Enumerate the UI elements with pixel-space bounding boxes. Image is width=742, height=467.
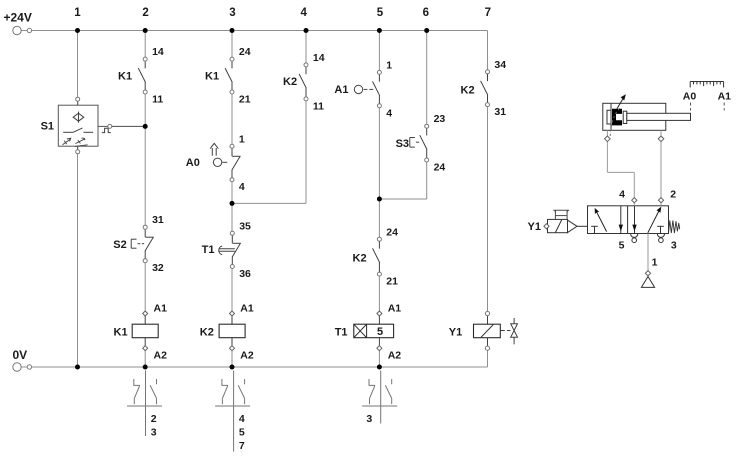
svg-text:4: 4 [239, 413, 245, 425]
svg-text:A2: A2 [388, 350, 402, 362]
contact K2 rung7 (34-31) [461, 59, 507, 118]
contact A0 limit switch (1-4) actuated [186, 133, 245, 193]
svg-text:K1: K1 [118, 71, 132, 83]
svg-text:5: 5 [377, 7, 384, 19]
svg-text:5: 5 [619, 240, 625, 252]
valve port 4 [619, 189, 637, 206]
wire col2 [144, 31, 146, 368]
junction dots top rail [75, 28, 429, 33]
svg-text:T1: T1 [202, 244, 215, 256]
svg-text:1: 1 [74, 7, 81, 19]
svg-text:Y1: Y1 [449, 326, 462, 338]
svg-text:4: 4 [386, 107, 392, 119]
contact cross-reference T1 [362, 371, 397, 425]
svg-text:24: 24 [434, 162, 446, 174]
relay coil K1 [114, 303, 168, 362]
svg-text:K2: K2 [353, 253, 367, 265]
node 6 [423, 7, 429, 19]
svg-text:A0: A0 [683, 91, 697, 103]
+24V rail [32, 31, 488, 70]
svg-text:0V: 0V [13, 348, 28, 362]
wire col4 [232, 31, 306, 204]
svg-text:21: 21 [239, 94, 251, 106]
valve 1V (5/2-way) body [588, 206, 669, 234]
svg-text:A2: A2 [154, 350, 168, 362]
svg-text:A1: A1 [334, 84, 348, 96]
terminal +24V [4, 10, 32, 34]
Y1 valve linkage symbol [500, 318, 517, 344]
svg-text:K2: K2 [283, 76, 297, 88]
svg-text:4: 4 [300, 7, 307, 19]
contact K2 rung5 (24-21) [353, 226, 399, 287]
svg-text:7: 7 [239, 440, 245, 452]
svg-text:K2: K2 [461, 85, 475, 97]
node 7 [485, 7, 491, 19]
position mark A1 [718, 91, 732, 111]
svg-text:5: 5 [377, 326, 383, 338]
svg-text:2: 2 [142, 7, 148, 19]
svg-text:Y1: Y1 [528, 221, 541, 233]
svg-text:14: 14 [313, 52, 325, 64]
svg-text:K1: K1 [205, 71, 219, 83]
svg-text:21: 21 [386, 276, 398, 288]
svg-text:T1: T1 [335, 326, 348, 338]
svg-text:A2: A2 [240, 350, 254, 362]
contact cross-reference K2 [215, 371, 250, 453]
svg-text:2: 2 [151, 413, 157, 425]
svg-text:32: 32 [152, 262, 164, 274]
valve manual override [553, 210, 569, 219]
svg-text:A1: A1 [388, 303, 402, 315]
contact A1 limit switch (1-4) [334, 59, 392, 119]
node 1 [74, 7, 81, 19]
svg-text:A0: A0 [186, 157, 200, 169]
svg-text:S2: S2 [113, 239, 126, 251]
svg-text:3: 3 [151, 427, 157, 439]
wire col1 top [77, 31, 79, 98]
contact K1 rung3 (24-21) [205, 46, 251, 105]
svg-text:1: 1 [386, 59, 392, 71]
svg-text:6: 6 [423, 7, 429, 19]
svg-text:31: 31 [494, 106, 506, 118]
junction col5 / col6 branch [377, 197, 382, 202]
svg-text:K2: K2 [200, 326, 214, 338]
junction col3 / col4 branch [230, 201, 235, 206]
svg-text:S3: S3 [396, 138, 409, 150]
svg-text:34: 34 [494, 59, 506, 71]
svg-text:23: 23 [434, 113, 446, 125]
tube cylinder left port to valve port 4 [607, 130, 634, 197]
svg-text:7: 7 [485, 7, 491, 19]
relay coil T1 (timer, 5s) [335, 303, 402, 362]
terminal 0V [13, 348, 32, 371]
svg-text:A1: A1 [240, 303, 254, 315]
contact K1 rung2 (14-11) [118, 46, 164, 105]
contact cross-reference K1 [127, 371, 162, 439]
svg-text:3: 3 [366, 413, 372, 425]
contact S3 pushbutton (23-24) [396, 113, 446, 173]
wire col7 [487, 107, 489, 312]
svg-text:31: 31 [152, 214, 164, 226]
relay coil Y1 solenoid coil [449, 311, 501, 350]
contact K2 rung4 (14-11) [283, 52, 325, 113]
svg-text:36: 36 [239, 268, 251, 280]
svg-text:K1: K1 [114, 326, 128, 338]
svg-text:11: 11 [152, 94, 163, 106]
node 4 [300, 7, 307, 19]
svg-text:3: 3 [229, 7, 235, 19]
tube cylinder right port to valve port 2 [660, 130, 662, 197]
valve port 5 exhaust [619, 234, 638, 252]
contact S2 (31-32) NC pushbutton [113, 214, 164, 274]
svg-text:4: 4 [619, 189, 625, 201]
junction S1 output / col2 [143, 124, 148, 129]
node 5 [377, 7, 384, 19]
valve port 2 [658, 189, 676, 206]
valve port 1 + compressed air supply [641, 234, 657, 288]
svg-text:14: 14 [152, 46, 164, 58]
wire col5 [378, 31, 380, 368]
svg-text:1: 1 [239, 133, 245, 145]
svg-text:24: 24 [239, 46, 251, 58]
contact T1 timer contact (35-36) on-delay NC [202, 220, 251, 280]
node 2 [142, 7, 148, 19]
svg-text:4: 4 [239, 181, 245, 193]
valve right chamber passages [632, 206, 664, 234]
relay coil K2 [200, 303, 254, 362]
cylinder 1A (double-acting) [603, 94, 691, 136]
svg-text:A1: A1 [154, 303, 168, 315]
svg-text:2: 2 [670, 189, 676, 201]
svg-text:5: 5 [239, 427, 245, 439]
svg-text:+24V: +24V [4, 10, 32, 24]
valve solenoid Y1 pilot [528, 219, 588, 233]
switch S1 (proximity sensor with pulse output) [41, 97, 98, 154]
wire col3 [231, 31, 233, 368]
junction dots bottom rail [75, 365, 382, 370]
wire col1 bottom [77, 154, 79, 367]
svg-text:24: 24 [386, 226, 398, 238]
svg-text:1: 1 [652, 257, 658, 269]
svg-text:3: 3 [671, 240, 677, 252]
svg-text:35: 35 [239, 220, 251, 232]
valve return spring [669, 220, 680, 233]
position mark A0 [683, 91, 697, 111]
cylinder port connectors [605, 136, 664, 142]
valve left chamber passages [591, 206, 623, 234]
svg-text:A1: A1 [718, 91, 732, 103]
svg-text:11: 11 [313, 100, 324, 112]
wire col6 [379, 31, 426, 200]
0V rail [32, 350, 488, 367]
svg-text:S1: S1 [41, 121, 54, 133]
position scale ruler [690, 82, 723, 88]
wire S1 output [98, 124, 145, 132]
valve port 3 exhaust [657, 234, 677, 252]
node 3 [229, 7, 235, 19]
